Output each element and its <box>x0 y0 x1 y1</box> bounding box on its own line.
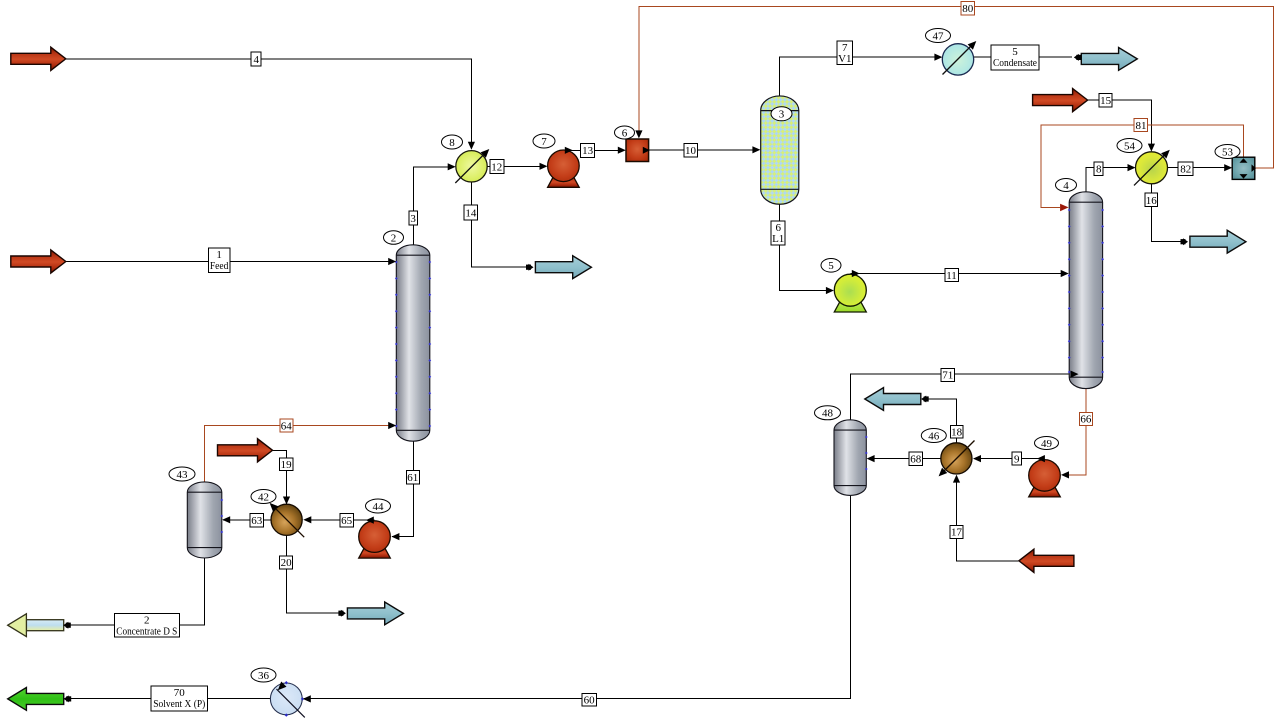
feed arrow stream 17 <box>1019 549 1074 572</box>
pump 44 <box>359 521 391 558</box>
nub stream 70 <box>66 696 71 701</box>
svg-text:20: 20 <box>281 557 293 569</box>
arrowhead stream 1 into column 2 <box>388 258 396 265</box>
nub stream 2 concentrate <box>66 623 71 628</box>
svg-text:13: 13 <box>582 145 594 157</box>
label stream 4 <box>251 52 261 66</box>
svg-text:80: 80 <box>962 3 974 15</box>
nub stream 16 <box>1181 239 1186 244</box>
svg-text:15: 15 <box>1100 95 1112 107</box>
wire stream 64 <box>204 426 389 483</box>
wire stream 70 <box>65 697 271 699</box>
wire stream 61 <box>392 441 413 537</box>
arrowhead stream 81 into column 4 <box>1060 204 1069 212</box>
arrowhead stream 61 into pump 44 <box>391 533 399 540</box>
arrowhead stream 4 into HX 8 <box>468 142 475 150</box>
pump 5 <box>834 274 866 312</box>
heat exchanger 36 <box>270 681 304 717</box>
svg-text:71: 71 <box>942 370 953 382</box>
svg-text:10: 10 <box>685 145 697 157</box>
svg-text:8: 8 <box>449 137 455 149</box>
label stream 17 <box>950 525 963 538</box>
vessel 48 <box>834 420 868 496</box>
svg-text:Solvent X (P): Solvent X (P) <box>153 698 205 710</box>
svg-text:V1: V1 <box>838 53 851 65</box>
wire stream 18 <box>922 399 956 443</box>
label stream 1 Feed <box>208 248 230 273</box>
unit label 8 <box>442 135 463 149</box>
label stream 63 <box>250 513 264 527</box>
wire stream 9 <box>974 458 1044 460</box>
wire stream 16 <box>1151 184 1184 242</box>
arrowhead pump 44 outlet <box>366 517 374 524</box>
valve 6 port arrow <box>643 147 650 154</box>
svg-text:6: 6 <box>622 127 628 139</box>
product arrow stream 20 <box>347 602 403 625</box>
label stream 60 <box>582 693 596 706</box>
svg-text:53: 53 <box>1222 146 1234 158</box>
arrowhead stream 7 into HX 47 <box>934 54 942 61</box>
svg-text:43: 43 <box>177 469 189 481</box>
arrowhead stream 60 into HX 36 <box>303 695 311 702</box>
unit label 6 <box>615 126 635 139</box>
wire stream 20 <box>287 535 342 613</box>
svg-text:81: 81 <box>1136 120 1147 132</box>
wire stream 82 <box>1168 167 1226 169</box>
label stream 61 <box>406 470 419 484</box>
wire stream 2 concentrate <box>64 558 204 626</box>
heat exchanger 54 <box>1134 150 1170 186</box>
wire stream 12 <box>488 165 541 167</box>
heat exchanger 8 <box>455 149 489 183</box>
product arrow stream 2 concentrate <box>8 614 64 637</box>
arrowhead stream 11 into column 4 <box>1061 270 1069 277</box>
valve 6 <box>626 139 649 162</box>
svg-text:7: 7 <box>541 136 547 148</box>
nub stream 18 <box>924 396 929 401</box>
arrowhead stream 64 into column 2 <box>388 422 396 429</box>
arrowhead stream 80 into valve 6 <box>635 130 642 138</box>
svg-text:54: 54 <box>1124 140 1136 152</box>
wire stream 14 <box>471 182 527 267</box>
product arrow stream 18 <box>865 388 921 411</box>
svg-text:48: 48 <box>822 408 834 420</box>
unit label 49 <box>1035 437 1059 450</box>
svg-text:47: 47 <box>933 30 945 42</box>
wire stream 13 <box>564 149 621 151</box>
svg-text:L1: L1 <box>772 233 784 245</box>
column 4 <box>1068 192 1104 389</box>
mixer 46 <box>939 441 975 477</box>
svg-text:82: 82 <box>1180 163 1191 175</box>
flash vessel 3 <box>761 96 799 204</box>
label stream 18 <box>950 426 963 439</box>
label stream 70 Solvent <box>151 686 207 711</box>
svg-text:4: 4 <box>1063 180 1069 192</box>
svg-text:2: 2 <box>391 232 397 244</box>
arrowhead stream 8 into HX 54 <box>1128 164 1136 171</box>
label stream 81 <box>1134 119 1148 132</box>
svg-text:46: 46 <box>928 430 940 442</box>
feed arrow stream 19 <box>218 439 273 462</box>
label stream 65 <box>340 513 354 527</box>
unit label 43 <box>169 467 195 481</box>
column 2 <box>395 245 431 441</box>
unit label 2 <box>384 231 404 245</box>
label stream 14 <box>464 205 478 220</box>
feed arrow stream 4 <box>11 47 66 70</box>
wire stream 8 <box>1086 168 1129 192</box>
label stream 6 L1 <box>771 221 785 245</box>
product arrow stream 16 <box>1190 230 1246 253</box>
label stream 12 <box>490 160 504 174</box>
arrowhead stream 3 into HX 8 <box>448 163 456 170</box>
svg-text:66: 66 <box>1080 414 1092 426</box>
nub stream 5 condensate <box>1076 55 1081 60</box>
label stream 16 <box>1145 193 1158 207</box>
svg-text:61: 61 <box>407 472 418 484</box>
arrowhead pump 5 outlet <box>852 270 860 277</box>
pump 49 <box>1029 460 1061 497</box>
product arrow stream 5 condensate <box>1081 48 1137 71</box>
wire stream 81 <box>1041 125 1244 207</box>
unit label 4 <box>1056 179 1077 192</box>
label stream 9 <box>1012 452 1022 465</box>
arrowhead stream 6 into pump 5 <box>826 287 834 294</box>
feed arrow stream 1 <box>11 250 66 273</box>
svg-text:3: 3 <box>410 213 416 225</box>
arrowhead stream 12 into pump 7 <box>540 163 548 170</box>
svg-text:16: 16 <box>1146 195 1158 207</box>
label stream 66 <box>1079 412 1092 425</box>
svg-text:36: 36 <box>258 670 270 682</box>
pump 7 <box>548 150 580 187</box>
unit label 42 <box>251 490 276 504</box>
svg-text:68: 68 <box>910 454 922 466</box>
unit label 5 <box>821 259 841 273</box>
wire stream 6 L1 <box>780 205 828 291</box>
unit label 3 <box>771 107 792 121</box>
unit label 48 <box>815 406 841 420</box>
nub stream 14 <box>526 265 531 270</box>
arrowhead stream 9 into mixer 46 <box>973 455 981 462</box>
label stream 82 <box>1178 162 1193 176</box>
label stream 68 <box>909 452 923 466</box>
wire stream 4 <box>66 59 472 144</box>
wire stream 71 <box>851 374 1072 420</box>
svg-text:42: 42 <box>258 491 269 503</box>
svg-text:12: 12 <box>491 161 502 173</box>
label stream 64 <box>280 419 293 432</box>
svg-text:9: 9 <box>1014 454 1020 466</box>
wire stream 7 V1 <box>780 57 936 96</box>
arrowhead stream 17 into mixer 46 <box>953 475 960 483</box>
wire stream 5 condensate <box>974 56 1072 58</box>
svg-text:Condensate: Condensate <box>993 57 1037 69</box>
arrowhead stream 66 into pump 49 <box>1061 471 1069 478</box>
svg-text:Feed: Feed <box>210 260 229 272</box>
arrowhead stream 19 into mixer 42 <box>283 497 290 505</box>
unit label 46 <box>921 429 946 443</box>
unit label 36 <box>251 668 276 682</box>
svg-text:Concentrate D S: Concentrate D S <box>116 625 177 637</box>
svg-text:17: 17 <box>951 527 963 539</box>
arrowhead stream 71 into column 4 <box>1071 371 1079 378</box>
wire stream 63 <box>223 519 271 521</box>
unit label 53 <box>1215 145 1240 159</box>
label stream 7 V1 <box>837 41 853 65</box>
wire stream 68 <box>868 458 941 460</box>
svg-text:4: 4 <box>253 54 259 66</box>
mixer 42 <box>270 503 305 537</box>
label stream 20 <box>280 556 293 569</box>
svg-text:65: 65 <box>341 515 353 527</box>
unit label 7 <box>533 134 555 148</box>
label stream 71 <box>941 368 955 381</box>
svg-text:8: 8 <box>1096 164 1102 176</box>
label stream 10 <box>684 144 698 158</box>
heat exchanger 47 <box>942 41 976 75</box>
label stream 13 <box>581 143 595 157</box>
wire stream 19 <box>272 450 286 499</box>
product arrow stream 70 solvent <box>8 688 64 711</box>
label stream 80 <box>961 2 975 16</box>
product arrow stream 14 <box>535 256 591 279</box>
wire stream 3 <box>414 167 449 245</box>
svg-text:49: 49 <box>1041 438 1053 450</box>
svg-text:14: 14 <box>465 207 477 219</box>
wire stream 11 <box>850 273 1062 275</box>
svg-text:18: 18 <box>951 427 963 439</box>
divider 53 <box>1232 157 1256 179</box>
unit label 47 <box>926 29 951 43</box>
nub stream 20 <box>338 611 343 616</box>
arrowhead stream 65 into mixer 42 <box>303 516 311 523</box>
label stream 19 <box>279 458 293 471</box>
wire stream 1 feed <box>66 261 391 263</box>
arrowhead stream 10 into vessel 3 <box>752 146 760 153</box>
arrowhead pump 49 outlet <box>1037 455 1045 462</box>
svg-text:63: 63 <box>251 515 263 527</box>
svg-text:19: 19 <box>281 459 293 471</box>
arrowhead stream 13 into valve 6 <box>618 147 626 154</box>
arrowhead stream 82 into divider 53 <box>1224 164 1232 171</box>
wire stream 17 <box>956 476 1018 561</box>
label stream 11 <box>945 269 959 282</box>
wire stream 10 <box>649 149 754 151</box>
wire stream 66 <box>1063 389 1086 475</box>
arrowhead stream 15 into HX 54 <box>1148 144 1155 152</box>
label stream 2 Concentrate <box>114 613 179 637</box>
svg-text:11: 11 <box>946 270 957 282</box>
wire stream 65 <box>305 519 374 521</box>
unit label 54 <box>1117 139 1142 153</box>
svg-text:64: 64 <box>281 420 293 432</box>
label stream 5 Condensate <box>991 45 1039 70</box>
svg-text:60: 60 <box>584 694 596 706</box>
vessel 43 <box>187 482 223 558</box>
wire stream 80 recycle <box>639 6 1274 168</box>
label stream 8 <box>1094 162 1103 176</box>
label stream 15 <box>1099 93 1112 107</box>
unit label 44 <box>366 499 391 513</box>
arrowhead pump 7 outlet <box>565 147 573 154</box>
wire stream 15 <box>1088 100 1152 145</box>
label stream 3 <box>409 211 418 225</box>
wire stream 60 <box>304 495 851 698</box>
svg-text:5: 5 <box>828 260 834 272</box>
svg-text:3: 3 <box>779 109 785 121</box>
arrowhead stream 63 into vessel 43 <box>222 516 230 523</box>
svg-text:44: 44 <box>373 501 385 513</box>
arrowhead stream 68 into vessel 48 <box>867 455 875 462</box>
feed arrow stream 15 <box>1033 89 1088 112</box>
